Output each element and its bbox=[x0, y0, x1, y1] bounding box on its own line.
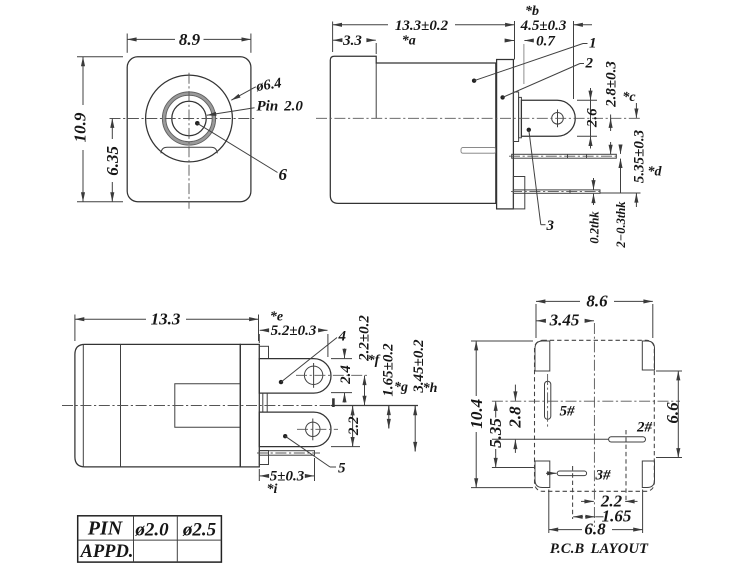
svg-text:6.8: 6.8 bbox=[584, 520, 606, 539]
dim 0.2thk bbox=[593, 178, 595, 190]
TABLE bbox=[78, 516, 222, 562]
svg-text:3.45: 3.45 bbox=[549, 311, 580, 330]
pin center dot bbox=[195, 121, 200, 126]
svg-text:2#: 2# bbox=[636, 420, 653, 436]
dim 13.3+-0.2 extension lines bbox=[332, 22, 334, 53]
dim 2.8+-0.3 bbox=[610, 119, 612, 132]
svg-text:Pin 2.0: Pin 2.0 bbox=[257, 99, 304, 115]
svg-text:*a: *a bbox=[402, 34, 416, 49]
horizontal centerline bbox=[316, 117, 640, 119]
dim 2-0.3thk bbox=[620, 147, 622, 154]
main centerline bbox=[62, 405, 331, 407]
svg-text:2.2: 2.2 bbox=[346, 416, 362, 436]
pad top-right bbox=[642, 341, 654, 370]
svg-text:6: 6 bbox=[279, 165, 288, 184]
dim 13.3 bbox=[75, 318, 146, 320]
dim 2.2 bbox=[352, 406, 354, 414]
dim 2.4 extension lines bbox=[331, 358, 352, 360]
barrel face line bbox=[82, 345, 84, 467]
svg-text:APPD.: APPD. bbox=[80, 542, 134, 562]
leader 6 bbox=[197, 123, 277, 172]
horizontal centerline bbox=[110, 118, 256, 120]
bottom terminal bar bbox=[513, 190, 600, 193]
section tick bbox=[332, 398, 335, 407]
svg-text:5: 5 bbox=[338, 461, 346, 477]
dim 2.6 extension lines bbox=[577, 99, 597, 101]
svg-text:2.6: 2.6 bbox=[584, 108, 600, 128]
table frame bbox=[78, 516, 222, 562]
svg-text:2: 2 bbox=[585, 56, 594, 72]
lower hole centerline bbox=[297, 428, 338, 430]
lug hole crosshair bbox=[557, 110, 559, 128]
svg-text:2.4: 2.4 bbox=[338, 365, 354, 385]
svg-text:1.65: 1.65 bbox=[602, 507, 632, 526]
leader 3 bbox=[527, 128, 531, 132]
dim 13.3+-0.2 bbox=[333, 24, 388, 26]
dim 5.35 bbox=[495, 402, 497, 418]
pad bottom-left bbox=[535, 461, 550, 488]
dim 8.9 extension lines bbox=[126, 34, 128, 53]
svg-text:2.8±0.3: 2.8±0.3 bbox=[604, 61, 620, 108]
hidden cavity bbox=[175, 384, 241, 427]
dim 6.6 extension lines bbox=[656, 370, 682, 372]
svg-text:5#: 5# bbox=[560, 404, 576, 420]
FRONT VIEW (top-left) bbox=[70, 30, 303, 209]
leader Pin 2.0 bbox=[207, 108, 255, 116]
svg-text:10.4: 10.4 bbox=[467, 399, 486, 429]
housing body outline bbox=[75, 344, 240, 467]
dim 13.3 extension lines bbox=[74, 315, 76, 342]
shield flat window bbox=[161, 147, 217, 153]
dim 6.35 bbox=[111, 119, 113, 140]
flange plate bbox=[497, 60, 514, 209]
table column lines bbox=[133, 516, 135, 562]
shield outer circle bbox=[146, 75, 233, 162]
dim 5.2+-0.3 bbox=[258, 334, 260, 343]
BOTTOM VIEW (bottom-left) bbox=[62, 309, 438, 497]
vertical centerline bbox=[593, 323, 595, 527]
dim 5.35+-0.3 bbox=[600, 192, 641, 194]
dim 1.65+-0.2 bbox=[388, 406, 390, 429]
svg-text:13.3: 13.3 bbox=[151, 309, 181, 328]
leader 5 bbox=[283, 434, 287, 438]
dim 2.2 bbox=[581, 500, 594, 502]
pad top-left bbox=[535, 341, 550, 371]
lower lug hole bbox=[306, 422, 320, 436]
dim 2.8 bbox=[514, 385, 516, 401]
svg-text:ø2.0: ø2.0 bbox=[134, 520, 169, 541]
bottom peg bbox=[259, 451, 268, 465]
dim 10.4 extension lines bbox=[471, 340, 533, 342]
top peg bbox=[259, 346, 268, 358]
svg-text:*g: *g bbox=[394, 380, 408, 395]
pin between tabs bbox=[262, 393, 264, 412]
svg-text:*d: *d bbox=[648, 165, 663, 180]
svg-text:4: 4 bbox=[338, 329, 347, 345]
svg-text:13.3±0.2: 13.3±0.2 bbox=[395, 18, 449, 34]
barrel inner circle bbox=[172, 101, 206, 135]
svg-text:*f: *f bbox=[368, 353, 381, 368]
svg-text:*h: *h bbox=[423, 381, 438, 396]
insulator washer step 1 bbox=[513, 92, 518, 142]
svg-text:P.C.B LAYOUT: P.C.B LAYOUT bbox=[550, 541, 649, 557]
dim 3.45+-0.2 bbox=[414, 406, 416, 452]
dim 10.9 extension lines bbox=[77, 56, 123, 58]
svg-text:2.8: 2.8 bbox=[505, 406, 524, 429]
dim 10.4 bbox=[475, 341, 477, 396]
pad bottom-right bbox=[642, 461, 654, 488]
dim 2.4 bbox=[344, 349, 346, 359]
dim 2.6 bbox=[590, 88, 592, 100]
hidden side pin bbox=[461, 148, 496, 154]
upper lug tab bbox=[259, 359, 331, 394]
dim 6.8 extension lines bbox=[548, 490, 550, 534]
dim 3.45 bbox=[537, 320, 544, 322]
svg-text:8.9: 8.9 bbox=[179, 30, 201, 49]
housing front face bbox=[127, 57, 251, 202]
flange plate bbox=[240, 344, 259, 467]
dim 5+-0.3 bbox=[260, 475, 266, 477]
dim 0.7 bbox=[523, 44, 525, 84]
svg-text:*c: *c bbox=[622, 90, 636, 105]
extension line 2# row bbox=[492, 438, 609, 440]
dim 5+-0.3 extension lines bbox=[258, 469, 260, 481]
top terminal bar bbox=[512, 154, 617, 158]
table row line bbox=[78, 539, 222, 541]
svg-text:4.5±0.3: 4.5±0.3 bbox=[520, 18, 567, 34]
svg-text:8.6: 8.6 bbox=[586, 292, 608, 311]
slot 3# bbox=[557, 471, 586, 476]
slot 5# bbox=[545, 381, 551, 419]
svg-text:10.9: 10.9 bbox=[70, 112, 89, 142]
dim 4.5+-0.3 bbox=[573, 21, 575, 99]
svg-text:5.35±0.3: 5.35±0.3 bbox=[632, 129, 648, 183]
svg-text:5.2±0.3: 5.2±0.3 bbox=[271, 323, 317, 339]
slot 2# bbox=[609, 437, 646, 442]
svg-text:3#: 3# bbox=[595, 468, 612, 484]
leader 1 bbox=[472, 79, 476, 83]
svg-text:3.3: 3.3 bbox=[342, 33, 362, 49]
dim 8.6 bbox=[536, 300, 580, 302]
upper lug hole bbox=[304, 366, 322, 384]
upper hole centerline bbox=[296, 374, 368, 376]
PCB LAYOUT (bottom-right) bbox=[467, 292, 682, 557]
vertical centerline bbox=[188, 73, 190, 209]
leader dia 6.4 bbox=[231, 87, 256, 100]
dim 8.9 bbox=[127, 38, 175, 40]
horizontal centerline bbox=[492, 400, 680, 402]
leader 2 bbox=[500, 95, 504, 99]
metal ring bbox=[164, 94, 214, 144]
dim 6.6 bbox=[677, 371, 679, 458]
svg-text:3: 3 bbox=[546, 218, 555, 234]
body step line bbox=[120, 344, 122, 467]
SIDE VIEW (top-right) bbox=[316, 4, 663, 249]
svg-text:ø2.5: ø2.5 bbox=[182, 520, 217, 541]
svg-text:*i: *i bbox=[267, 482, 278, 497]
housing body outline bbox=[330, 56, 496, 203]
svg-text:6.6: 6.6 bbox=[663, 402, 682, 424]
board outline dashed bbox=[535, 340, 655, 491]
insulator washer step 2 bbox=[519, 97, 522, 137]
svg-text:PIN: PIN bbox=[87, 518, 124, 540]
svg-text:5.35: 5.35 bbox=[486, 418, 505, 448]
dim 2.2+-0.2 bbox=[364, 376, 366, 406]
dim 3.3 bbox=[375, 43, 377, 54]
svg-text:*b: *b bbox=[525, 4, 539, 19]
dim 10.9 bbox=[82, 57, 84, 105]
bottom terminal bar bbox=[259, 451, 314, 456]
dim 1.65 bbox=[573, 516, 583, 518]
bottom support boss bbox=[513, 177, 524, 209]
lug hole bbox=[552, 113, 564, 125]
cavity step line bbox=[375, 63, 377, 118]
solder lug tab bbox=[521, 100, 575, 136]
dim 8.6 extension lines bbox=[535, 304, 537, 338]
leader 4 bbox=[279, 380, 283, 384]
extension line 5.35 bottom bbox=[492, 467, 535, 469]
svg-text:0.2thk: 0.2thk bbox=[588, 211, 602, 244]
dim 6.8 bbox=[549, 529, 582, 531]
svg-text:0.7: 0.7 bbox=[536, 33, 555, 49]
lower lug tab bbox=[259, 412, 331, 447]
svg-text:1: 1 bbox=[589, 36, 597, 52]
svg-text:6.35: 6.35 bbox=[103, 145, 122, 175]
svg-text:2−0.3thk: 2−0.3thk bbox=[614, 201, 628, 249]
